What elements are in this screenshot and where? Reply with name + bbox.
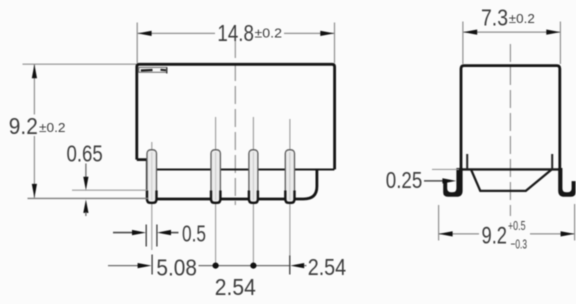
svg-text:9.2: 9.2 <box>9 113 38 139</box>
svg-text:−0.3: −0.3 <box>511 236 528 251</box>
dimension 7.3±0.2 extension line left <box>462 22 464 65</box>
dimension 2.54 arrow (right) <box>290 263 304 268</box>
dimension line pin2-pin3-pin4 <box>199 265 291 267</box>
gull-wing terminal right (side view) <box>558 168 575 197</box>
dimension 9.2 +0.5/-0.3 extension line right <box>574 204 576 241</box>
relay case outline (side view) <box>461 66 560 170</box>
svg-text:2.54: 2.54 <box>308 254 347 280</box>
svg-text:+0.5: +0.5 <box>508 218 526 233</box>
dimension 9.2±0.2 extension line bottom (seating plane) <box>28 197 149 199</box>
bottom insert trapezoid (side view) <box>471 169 552 191</box>
svg-text:9.2: 9.2 <box>482 223 508 250</box>
centerline pin 3 <box>252 117 254 266</box>
svg-text:0.65: 0.65 <box>67 140 103 166</box>
dimension 0.5 extension ticks (pin edges) <box>145 225 147 247</box>
dimension 0.25 extension line <box>432 168 459 170</box>
pin 1 (front view) <box>147 150 157 203</box>
centerline pin 4 <box>289 119 291 256</box>
pin 4 (front view) <box>285 150 294 203</box>
dimension 9.2 +0.5/-0.3 extension line left <box>438 205 440 241</box>
vent hole mark on case top-left <box>139 67 167 72</box>
dimension 2.54 tick at pin 4 centre <box>289 256 291 275</box>
dimension 5.08 dimension line with arrow <box>108 265 139 267</box>
dimension 7.3±0.2 extension line right <box>559 22 561 65</box>
relay base outline (front view) <box>137 160 317 199</box>
dimension 5.08 tick at pin 1 centre <box>151 255 153 275</box>
dimension 14.8±0.2 extension line left <box>136 23 138 64</box>
dimension 9.2±0.2 dimension line <box>33 64 35 114</box>
dimension 0.25 leader arrow <box>424 180 444 182</box>
case bottom line (side view) <box>461 168 560 170</box>
pin 3 (front view) <box>249 150 258 203</box>
centerline pin 2 <box>215 117 217 266</box>
svg-text:14.8: 14.8 <box>217 20 254 46</box>
svg-text:7.3: 7.3 <box>481 5 508 31</box>
pin 2 (front view) <box>211 150 220 203</box>
centerline: body vertical axis (front view) <box>234 40 236 205</box>
dimension 14.8±0.2 extension line right <box>334 23 336 64</box>
centerline: body vertical axis (side view) <box>509 44 511 216</box>
junction dot at pin 3 centre <box>250 263 256 269</box>
junction dot at pin 2 centre <box>213 263 219 269</box>
centerline pin 1 <box>151 142 153 250</box>
gull-wing terminal left (side view) <box>443 168 462 197</box>
dimension 0.65 extension line upper <box>72 189 147 191</box>
dimension 9.2 +0.5/-0.3 dimension line <box>439 233 479 235</box>
svg-text:2.54: 2.54 <box>215 274 256 300</box>
terminal hidden edge left (side view) <box>466 154 468 169</box>
terminal hidden edge right (side view) <box>551 154 553 169</box>
dimension 0.65 dimension line with outside arrows <box>85 164 87 178</box>
svg-text:5.08: 5.08 <box>156 255 197 281</box>
svg-text:0.25: 0.25 <box>386 167 423 193</box>
dimension 14.8±0.2 dimension line <box>138 32 215 34</box>
dimension 0.5 dimension line with outside arrows <box>113 232 133 234</box>
svg-text:0.5: 0.5 <box>182 221 206 247</box>
dimension 7.3±0.2 dimension line <box>463 31 560 33</box>
svg-text:±0.2: ±0.2 <box>255 25 283 40</box>
dimension 9.2±0.2 extension line top <box>23 63 137 65</box>
svg-text:±0.2: ±0.2 <box>509 11 535 26</box>
svg-text:±0.2: ±0.2 <box>39 120 66 135</box>
case bottom seam line (front view) <box>148 169 334 171</box>
relay case outline (front view) <box>137 64 335 169</box>
